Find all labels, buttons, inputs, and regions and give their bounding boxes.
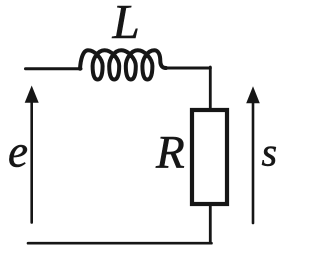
svg-text:e: e [8, 127, 28, 177]
svg-text:s: s [262, 130, 278, 175]
svg-text:R: R [155, 127, 185, 179]
svg-text:L: L [112, 0, 140, 49]
